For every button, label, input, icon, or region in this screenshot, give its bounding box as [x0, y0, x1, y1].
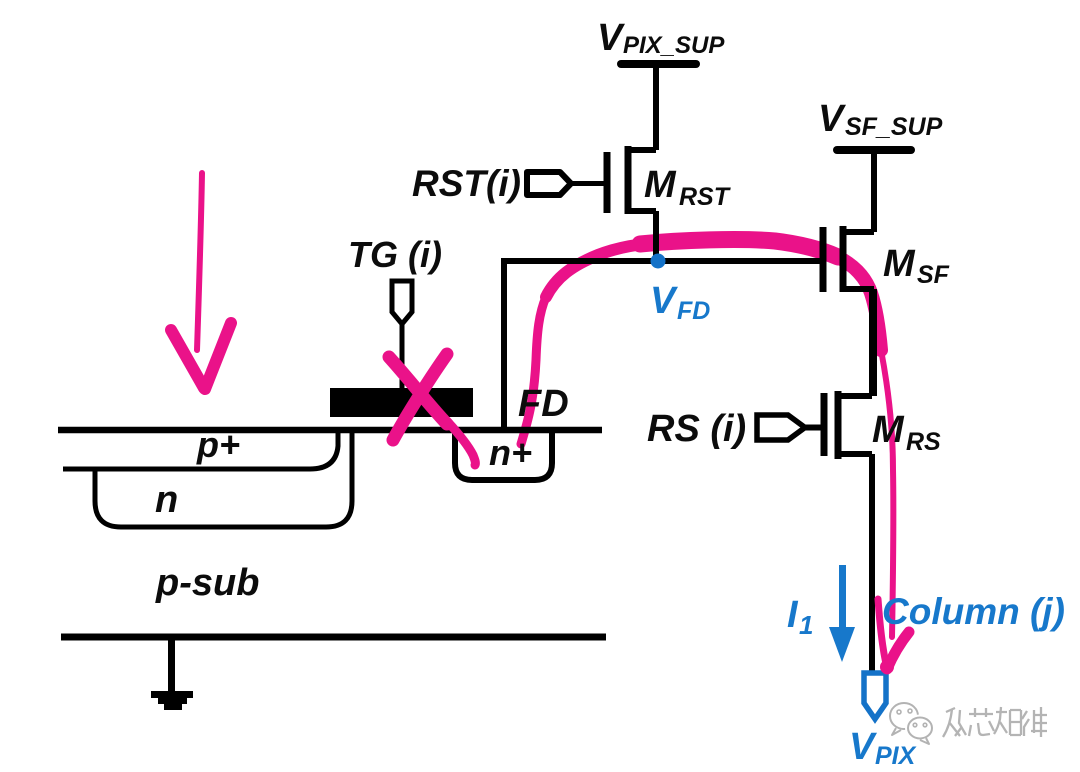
label p+ [196, 424, 240, 465]
svg-text:RST: RST [679, 183, 732, 211]
label RST(i) [412, 163, 521, 204]
silicon surface line [58, 427, 602, 434]
svg-text:RS (i): RS (i) [647, 408, 746, 450]
label p-sub [155, 562, 259, 604]
label n+ [489, 432, 532, 473]
svg-text:Column (j): Column (j) [882, 591, 1065, 632]
svg-text:M: M [872, 409, 905, 451]
wire: column line below M_RS [869, 454, 875, 672]
X mark over TG gate (magenta) [389, 354, 475, 465]
label V_PIX [849, 726, 917, 770]
V_PIX output pin (blue) [864, 673, 886, 719]
label V_PIX_SUP [597, 17, 725, 59]
label RS (i) [647, 408, 746, 450]
current arrow I1 (blue) [829, 565, 855, 662]
label V_SF_SUP [818, 98, 943, 141]
svg-text:FD: FD [677, 297, 710, 325]
svg-text:TG (i): TG (i) [348, 234, 442, 275]
input flag RS (i) [757, 415, 821, 440]
label M_RS [872, 409, 941, 456]
supply V_SF_SUP bar [837, 146, 911, 154]
svg-text:p+: p+ [196, 424, 240, 465]
svg-text:RS: RS [906, 428, 941, 456]
svg-text:V: V [650, 280, 678, 322]
label n [155, 479, 178, 521]
svg-text:I: I [787, 594, 799, 636]
svg-text:M: M [644, 164, 677, 206]
watermark text 处芯积律 (approximated strokes) [943, 707, 1047, 737]
node V_FD dot [651, 254, 666, 269]
watermark wechat icon [890, 703, 932, 744]
ground [151, 636, 193, 710]
svg-text:V: V [818, 98, 846, 140]
highlight path from FD to column output (magenta, under wires) [521, 240, 893, 637]
svg-text:p-sub: p-sub [155, 562, 259, 604]
svg-text:n: n [155, 479, 178, 521]
svg-text:V: V [849, 726, 877, 768]
input flag RST(i) [527, 172, 604, 195]
svg-text:SF: SF [917, 261, 950, 289]
TG contact flag [392, 281, 412, 390]
wire: V_FD horizontal and FD vertical [504, 261, 820, 430]
supply V_PIX_SUP bar [621, 60, 696, 68]
transistor M_SF [823, 150, 874, 396]
p+ region boundary [63, 431, 338, 469]
label FD [518, 383, 569, 425]
svg-text:SF_SUP: SF_SUP [845, 113, 943, 141]
svg-text:FD: FD [518, 383, 569, 425]
checkmark tip of highlight at column output (magenta) [878, 599, 909, 674]
label M_RST [644, 164, 732, 211]
label I1 [787, 594, 813, 640]
n+ region boundary (floating diffusion) [455, 430, 552, 480]
n region boundary [95, 431, 352, 527]
label V_FD [650, 280, 710, 325]
svg-text:PIX_SUP: PIX_SUP [623, 32, 725, 59]
svg-text:PIX: PIX [875, 742, 917, 770]
svg-text:V: V [597, 17, 625, 59]
TG gate (black rectangle) [330, 388, 473, 417]
label Column (j) [882, 591, 1065, 632]
label M_SF [883, 243, 950, 289]
svg-text:RST(i): RST(i) [412, 163, 521, 204]
svg-text:1: 1 [799, 610, 813, 640]
label TG (i) [348, 234, 442, 275]
substrate line [61, 634, 606, 641]
transistor M_RS [824, 292, 872, 459]
transistor M_RST [607, 64, 656, 264]
photon arrow (magenta) [171, 173, 231, 389]
svg-text:M: M [883, 243, 916, 285]
svg-text:n+: n+ [489, 432, 532, 473]
